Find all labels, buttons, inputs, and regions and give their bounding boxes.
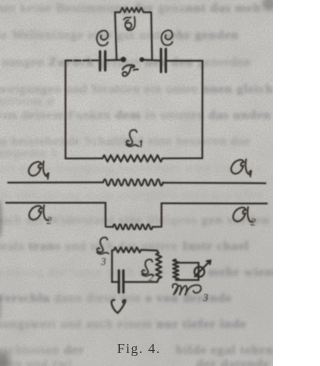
svg-text:2: 2	[251, 218, 257, 229]
svg-text:2: 2	[47, 216, 53, 227]
svg-text:3: 3	[202, 293, 208, 304]
svg-text:3: 3	[100, 257, 106, 268]
svg-text:2: 2	[149, 273, 154, 284]
